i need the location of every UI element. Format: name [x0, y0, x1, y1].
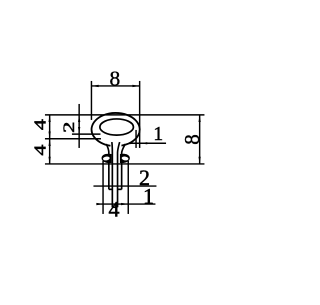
right dimension line 8 — [199, 115, 201, 164]
extension line right of top dim 8 — [139, 81, 141, 148]
arrow top dim 8 right — [132, 85, 139, 87]
arrow dim2 top (down tip) — [78, 115, 80, 122]
arrow dim2 bottom (up tip) — [78, 127, 80, 134]
svg-text:8: 8 — [180, 134, 204, 145]
long extension line bottom (ears bottom) — [45, 163, 205, 165]
left short leg tip — [109, 188, 113, 190]
inner ellipse (eye hole) — [100, 119, 134, 135]
top dimension line 8 — [91, 85, 139, 87]
dim 2 bottom leader line — [93, 185, 156, 187]
svg-text:1: 1 — [143, 184, 154, 209]
arrow right dim 8 bottom (down) — [199, 157, 201, 164]
dim 1 mid leader line — [129, 142, 166, 144]
long center leg tip — [112, 206, 117, 208]
dim 2 vertical line — [78, 104, 80, 148]
bottom left extension line — [102, 161, 104, 214]
svg-text:2: 2 — [61, 122, 78, 133]
long extension line top (ellipse top tangent) — [45, 114, 205, 116]
right short leg tip — [118, 188, 122, 190]
svg-text:1: 1 — [153, 124, 163, 145]
arrow top dim 8 left — [91, 85, 98, 87]
dim 1 bottom + bottom dim 4 line — [97, 203, 156, 205]
left leg outer edge with neck curve (short leg) — [106, 144, 109, 189]
bottom right extension line — [127, 161, 129, 214]
short extension line for dim 2 — [72, 133, 101, 135]
svg-text:8: 8 — [109, 67, 120, 91]
arrow right dim 8 top (up) — [199, 115, 201, 122]
svg-text:4: 4 — [108, 197, 119, 222]
right leg outer edge with neck curve (short leg) — [122, 144, 126, 189]
svg-text:4: 4 — [31, 119, 50, 130]
left chain dimension line — [49, 115, 51, 164]
outer ellipse of pin eye — [92, 113, 140, 146]
arrow left chain bottom (down) — [49, 157, 51, 164]
arrow left chain top (up) — [49, 115, 51, 122]
svg-text:4: 4 — [31, 144, 50, 155]
right ear white lens — [121, 156, 128, 161]
arrow left chain middle up — [49, 132, 51, 139]
middle extension line left — [45, 138, 101, 140]
left ear white lens — [103, 156, 110, 161]
extension line x=135.6 for dim 1 — [135, 130, 137, 148]
arrow dim1 mid pointing left — [140, 142, 147, 144]
arrow bottom dim4 left pointing right — [96, 203, 103, 205]
arrow bottom dim4 right pointing right — [121, 203, 128, 205]
right leg inner edge continuing as long center leg — [118, 142, 120, 207]
arrow dim1 mid pointing right — [129, 142, 136, 144]
arrow left chain middle down — [49, 139, 51, 146]
left ear filled bean — [102, 154, 112, 163]
right ear filled bean — [120, 154, 130, 163]
extension line left of top dim 8 — [90, 81, 92, 120]
left leg inner edge continuing as long center leg — [111, 142, 114, 207]
